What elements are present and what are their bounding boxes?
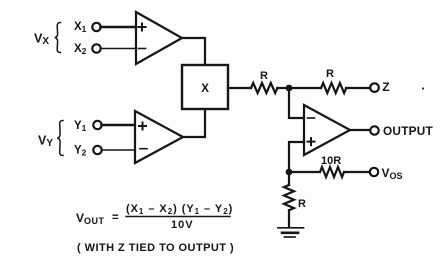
formula fraction bar [126,216,230,218]
input terminal X2 [92,44,100,52]
svg-text:( WITH Z TIED TO OUTPUT ): ( WITH Z TIED TO OUTPUT ) [77,242,234,254]
resistor R1 [251,83,277,93]
multiplier box [182,65,228,109]
label R3 [298,198,306,210]
node junction 2 [286,169,293,176]
label OUTPUT [383,124,434,138]
svg-text:Y2: Y2 [74,144,87,157]
label 10R [321,155,341,167]
wire A3 output to terminal [350,129,370,131]
wire A3 noninverting input to node 2 [289,142,304,172]
svg-text:=: = [112,212,119,224]
svg-text:Z: Z [382,80,389,94]
svg-text:R: R [298,198,306,210]
svg-text:(X1 – X2) (Y1 – Y2): (X1 – X2) (Y1 – Y2) [126,203,233,216]
brace VY [57,121,63,156]
speck artifact right of Z [422,87,424,89]
terminal OUTPUT [370,126,378,134]
svg-text:OUTPUT: OUTPUT [383,124,434,138]
svg-text:VY: VY [38,134,53,150]
A1 minus input sign [139,48,146,50]
svg-text:R: R [326,68,334,80]
A3 plus input sign [308,138,315,145]
label VX [34,32,49,48]
input terminal Y2 [93,146,101,154]
A2 minus input sign [140,148,147,150]
A2 plus input sign [139,123,146,130]
note with Z tied to output [77,242,234,254]
terminal Z [370,83,379,92]
wire Y1 to op-amp A2 [102,124,136,127]
wire R2 to terminal Z [346,87,370,89]
wire A1 output to multiplier [182,38,205,65]
wire 10R to terminal VOS [344,171,370,173]
label Z [382,80,389,94]
wire Y2 to op-amp A2 [102,149,136,151]
formula VOUT [76,203,233,231]
svg-text:X: X [201,83,209,95]
label R2 [326,68,334,80]
svg-text:X1: X1 [74,21,87,34]
node junction 1 [286,85,293,92]
resistor R3 [284,185,294,210]
label X1 [74,21,87,34]
label Y2 [74,144,87,157]
A3 minus input sign [308,117,315,119]
svg-text:R: R [260,70,268,82]
wire node 1 to resistor R2 [289,87,321,89]
A1 plus input sign [139,24,146,31]
svg-text:10R: 10R [321,155,341,167]
terminal VOS [370,168,378,176]
wire R3 to ground [288,210,290,227]
wire multiplier to resistor R1 [228,87,251,89]
label X2 [74,43,87,56]
input terminal Y1 [93,121,101,129]
ground [278,228,304,237]
op-amp A2 [135,111,183,163]
op-amp A3 [304,105,350,155]
input terminal X1 [92,23,100,31]
svg-text:10V: 10V [171,219,194,231]
label Y1 [74,120,87,133]
multiplier label X [201,83,209,95]
label R1 [260,70,268,82]
resistor 10R [320,167,344,177]
wire X2 to op-amp A1 [101,48,137,50]
brace VX [55,23,61,53]
wire node 2 to resistor R3 [288,172,290,185]
label VOS [382,166,403,181]
label VY [38,134,53,150]
wire node 1 to A3 inverting input [289,88,304,118]
wire X1 to op-amp A1 [101,26,137,29]
svg-text:X2: X2 [74,43,87,56]
wire R1 to node 1 [277,87,289,89]
svg-text:VOUT: VOUT [76,211,105,226]
wire node 2 to resistor 10R [289,171,320,173]
resistor R2 [321,83,346,93]
svg-text:VOS: VOS [382,166,403,181]
svg-text:VX: VX [34,32,49,48]
wire A2 output to multiplier [183,109,205,137]
svg-text:Y1: Y1 [74,120,87,133]
op-amp A1 [136,12,182,64]
